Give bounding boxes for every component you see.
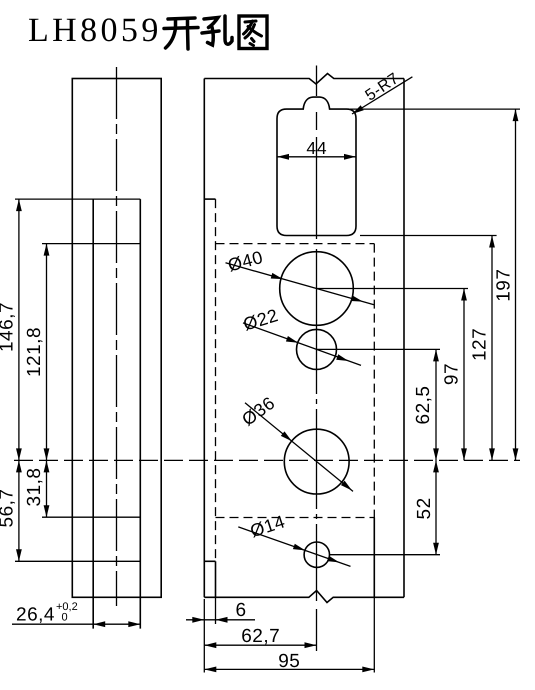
label D40	[226, 247, 265, 276]
dimension 97 line	[461, 289, 467, 461]
left view vertical centerline	[116, 67, 118, 606]
label D14	[248, 511, 288, 541]
title text LH8059	[28, 12, 162, 49]
svg-text:52: 52	[414, 497, 435, 519]
label D36	[238, 393, 279, 430]
extension line x=374.3 below plate	[373, 597, 375, 672]
leader line for D40	[226, 263, 375, 305]
main vertical centerline x=316.5	[316, 66, 318, 652]
left view line at 56,7 level	[15, 560, 140, 562]
svg-text:31,8: 31,8	[24, 468, 45, 507]
leader line for D36	[245, 403, 353, 492]
right view short solid edge below step	[215, 561, 217, 597]
dimension 197 line	[513, 109, 519, 460]
dimension 62,5 line	[433, 349, 439, 460]
label 5-R7	[363, 70, 403, 105]
dimension 97 label	[442, 363, 463, 385]
hidden edge left vertical (dashed)	[215, 199, 217, 561]
dimension 95 line	[204, 667, 374, 673]
left view line at 121,8 level	[42, 243, 140, 245]
svg-text:97: 97	[442, 363, 463, 385]
dimension 52 line	[433, 460, 439, 554]
leader line for D14	[238, 527, 350, 567]
right view bottom edge with break symbol	[204, 591, 404, 603]
svg-text:62,5: 62,5	[413, 386, 434, 425]
left view slot right edge	[139, 199, 141, 628]
title character KAI (open)	[164, 18, 198, 49]
dimension 31,8 label	[24, 468, 45, 507]
svg-text:4: 4	[306, 138, 316, 158]
hidden pocket right edge (dashed)	[373, 244, 375, 518]
dimension 121,8 label	[24, 327, 45, 377]
svg-text:121,8: 121,8	[24, 327, 45, 377]
dimension 127 label	[470, 328, 491, 361]
right view top edge with break symbol	[204, 74, 404, 85]
hidden pocket top edge (dashed)	[216, 243, 375, 245]
dimension 52 label	[414, 497, 435, 519]
extension line D14 center y=554.7	[330, 554, 441, 556]
extension line D22 center y=349.4	[317, 348, 441, 350]
left view line at 31,8 level	[42, 516, 140, 518]
dimension 62,7 line	[204, 642, 316, 648]
title character TU (diagram)	[239, 16, 267, 49]
svg-text:6: 6	[235, 600, 246, 621]
extension line keyhole top y=109.1	[350, 108, 520, 110]
dimension 62,5 label	[413, 386, 434, 425]
extension line x=204.3 below plate	[203, 599, 205, 673]
left view outer plate rectangle	[72, 79, 161, 598]
svg-text:4: 4	[317, 138, 327, 158]
extension line D40 center y=288.5	[317, 288, 469, 290]
dimension 127 line	[489, 236, 495, 461]
dimension 26,4 tolerance +0,2 over 0	[56, 601, 78, 624]
svg-text:127: 127	[470, 328, 491, 361]
dimension 6 line with outside arrows	[186, 617, 255, 623]
circle hole D14	[304, 542, 329, 567]
extension line x=215.5 below plate	[215, 597, 217, 624]
svg-text:197: 197	[494, 269, 515, 302]
dimension 146,7 label	[0, 302, 18, 352]
svg-text:26,4: 26,4	[16, 605, 55, 626]
right view step at bottom of hidden edge	[204, 560, 215, 562]
dimension 56,7 line	[16, 460, 22, 561]
dimension 44 label	[306, 138, 327, 158]
circle hole D22	[297, 329, 337, 369]
leader line for 5-R7	[352, 77, 412, 114]
label D22	[241, 305, 281, 335]
dimension 62,7 label	[241, 626, 280, 647]
dimension 26,4 line with outward arrows	[12, 621, 140, 627]
svg-text:62,7: 62,7	[241, 626, 280, 647]
dimension 121,8 line	[44, 244, 50, 461]
dimension 31,8 line	[44, 460, 50, 517]
dimension 56,7 label	[0, 489, 18, 528]
dimension 95 label	[278, 651, 300, 672]
horizontal datum centerline y=460.4	[14, 459, 520, 461]
svg-text:146,7: 146,7	[0, 302, 18, 352]
dimension 146,7 line	[16, 199, 22, 460]
svg-text:56,7: 56,7	[0, 489, 18, 528]
keyhole rounded-rect cutout with top bump	[277, 97, 356, 235]
left view slot left edge	[92, 199, 94, 628]
circle hole D40	[280, 252, 354, 326]
left view slot top line / extension for 146,7	[15, 198, 140, 200]
right view step at top of hidden edge	[204, 198, 215, 200]
solid line below pocket corner x=374.3	[373, 518, 375, 598]
leader line for D22	[243, 323, 361, 366]
right view left edge	[203, 79, 205, 598]
dimension 44 line	[277, 154, 356, 160]
svg-text:0: 0	[62, 612, 68, 624]
hidden pocket bottom edge (dashed)	[216, 517, 375, 519]
svg-text:95: 95	[278, 651, 300, 672]
extension line keyhole bottom y=235.5	[360, 235, 497, 237]
dimension 197 label	[494, 269, 515, 302]
right view right edge	[403, 79, 405, 598]
title character KONG (hole)	[202, 16, 232, 45]
dimension 6 label	[235, 600, 246, 621]
dimension 26,4 label	[16, 605, 55, 626]
circle hole D36	[284, 429, 349, 494]
svg-text:LH8059: LH8059	[28, 12, 162, 49]
